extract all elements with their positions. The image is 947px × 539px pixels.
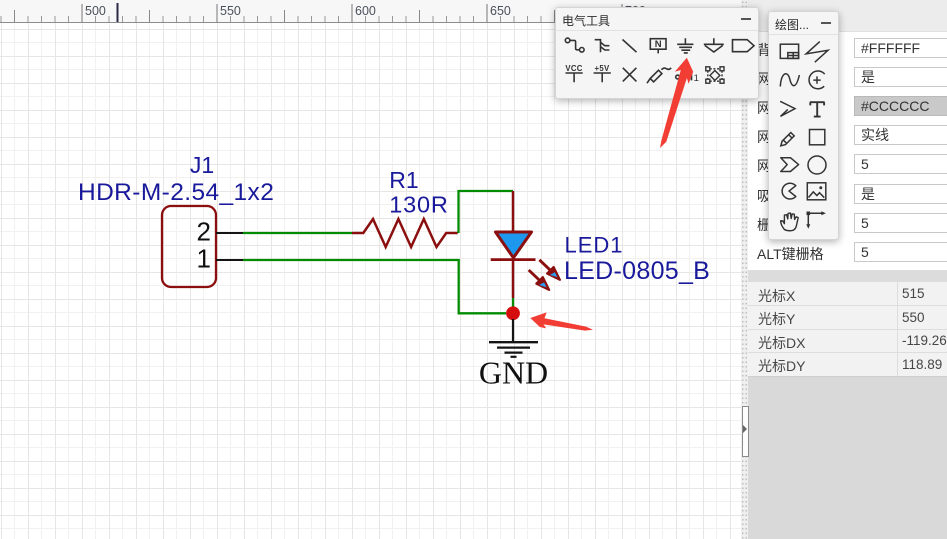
icon VCC tool xyxy=(565,64,582,82)
J1 pin 2 xyxy=(216,232,243,234)
cursor info table xyxy=(748,282,947,376)
icon pen tool xyxy=(647,68,671,83)
icon +5V tool xyxy=(594,64,611,82)
J1 reference designator xyxy=(190,152,214,178)
ground GND stem xyxy=(512,319,514,342)
wire cathode to junction xyxy=(512,298,514,307)
annotation arrow pointing at junction dot xyxy=(530,312,593,330)
dotted resize gutter xyxy=(741,0,748,539)
icon polyline tool xyxy=(806,42,828,63)
cursor position marker on ruler xyxy=(117,3,119,22)
J1 value HDR-M-2.54_1x2 xyxy=(78,179,274,206)
R1 value 130R xyxy=(389,192,448,218)
junction dot xyxy=(506,306,520,320)
top ruler xyxy=(0,0,741,23)
resistor R1 xyxy=(352,219,458,247)
icon arc tool xyxy=(809,71,825,89)
icon banner arrow tool xyxy=(781,158,799,172)
icon no-connect tool xyxy=(623,68,637,82)
icon symbol wizard tool xyxy=(706,67,724,83)
canvas grid xyxy=(0,22,741,539)
icon text tool xyxy=(810,102,825,116)
LED1 cathode pin xyxy=(512,261,515,298)
icon pie tool xyxy=(782,183,796,199)
J1 pin number 2 xyxy=(197,217,211,247)
icon line tool xyxy=(623,40,637,53)
icon pan hand tool xyxy=(781,213,798,231)
icon image tool xyxy=(807,183,826,200)
annotation arrow pointing at ground tool icon xyxy=(660,58,693,148)
icon dimension tool xyxy=(806,211,826,229)
LED1 emission arrow lower xyxy=(529,270,549,290)
ground GND bars xyxy=(489,342,538,357)
LED1 emission arrow upper xyxy=(539,260,560,280)
icon pencil tool xyxy=(781,133,794,146)
drawing tools floating panel xyxy=(768,11,839,240)
properties section xyxy=(748,0,947,270)
LED1 cathode bar xyxy=(491,258,536,261)
R1 reference designator xyxy=(389,167,418,193)
icon arrow tool xyxy=(780,101,795,116)
net label GND xyxy=(479,355,548,391)
wire pin1 to junction (down and over) xyxy=(243,260,506,313)
icon bus tool xyxy=(595,40,610,53)
icon ground alt tool xyxy=(704,38,724,52)
wire net pin2 to R1 xyxy=(243,232,352,234)
LED1 reference designator xyxy=(565,233,624,258)
gray strip between sections xyxy=(748,270,947,282)
J1 pin 1 xyxy=(216,259,243,261)
icon bezier tool xyxy=(780,74,799,87)
icon rectangle tool xyxy=(810,130,825,145)
icon pin tool xyxy=(676,73,699,84)
wire R1 to LED anode (up and over) xyxy=(459,191,514,233)
icon ellipse tool xyxy=(808,156,826,174)
icon net label tool xyxy=(650,39,666,54)
J1 pin number 1 xyxy=(197,244,211,274)
icon ground tool xyxy=(677,38,693,53)
icon wire tool xyxy=(565,38,584,52)
electrical tools floating panel xyxy=(555,7,759,99)
LED1 value LED-0805_B xyxy=(564,257,710,285)
icon net port tool xyxy=(733,40,755,52)
right properties panel xyxy=(741,0,947,539)
collapse handle xyxy=(742,406,749,457)
icon sheet tool xyxy=(780,44,798,58)
schematic drawing xyxy=(0,0,741,539)
connector J1 body xyxy=(162,206,216,287)
LED1 anode pin xyxy=(512,191,515,231)
LED1 body triangle xyxy=(496,232,532,258)
